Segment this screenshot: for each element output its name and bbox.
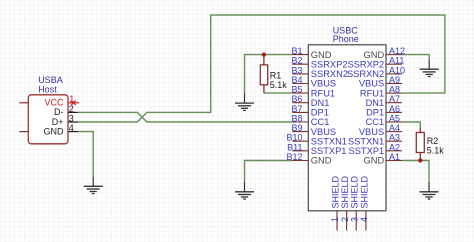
pin A4 [386,131,402,133]
svg-text:SSRXN2: SSRXN2 [347,69,384,79]
svg-text:B2: B2 [291,56,302,66]
USBA pin 2 [68,111,78,113]
junction dot on B1 net [262,53,266,57]
pin B3 [292,73,308,75]
svg-text:SSTXN1: SSTXN1 [311,136,347,146]
connector USBC box [308,45,386,211]
svg-text:3: 3 [349,217,359,222]
svg-text:4: 4 [69,123,74,133]
svg-text:GND: GND [364,50,385,60]
svg-text:CC1: CC1 [311,117,330,127]
wire D- net: USBA pin2 crossing down to B8 [78,112,292,122]
svg-text:1: 1 [69,94,74,104]
pin B7 [292,111,308,113]
pin A7 [386,102,402,104]
svg-text:D-: D- [54,107,64,117]
pin B9 [292,131,308,133]
resistor R1 [260,55,287,94]
svg-text:B12: B12 [286,152,302,162]
svg-text:A9: A9 [389,75,400,85]
ground G5 below B12 wire [235,182,254,199]
svg-text:B3: B3 [291,65,302,75]
svg-text:B5: B5 [291,85,302,95]
svg-text:A8: A8 [389,85,400,95]
svg-text:SSTXP1: SSTXP1 [349,146,385,156]
shield pin S2 [346,211,348,231]
svg-text:A6: A6 [389,104,400,114]
pin A5 [386,121,402,123]
USBA pin 3 [68,121,78,123]
shield pin S3 [355,211,357,231]
svg-text:VBUS: VBUS [311,127,336,137]
svg-text:B7: B7 [291,104,302,114]
svg-text:3: 3 [69,114,74,124]
wire A1 GND net to ground [402,161,429,183]
pin B10 [292,140,308,142]
svg-text:CC1: CC1 [366,117,385,127]
svg-text:2: 2 [340,217,350,222]
svg-text:A12: A12 [389,46,405,56]
ground G3 right of A12 [420,60,439,77]
svg-text:A11: A11 [389,56,404,66]
pin A9 [386,83,402,85]
shield pin S4 [365,211,367,231]
ground G4 below R2 [420,182,439,199]
USBA pin 4 [68,131,78,133]
pin A3 [386,140,402,142]
svg-text:Host: Host [38,85,57,95]
wire USBA pin4 GND to ground [78,132,93,177]
svg-text:VBUS: VBUS [359,79,384,89]
ground G1 below USBA [84,177,103,194]
svg-text:SSRXP2: SSRXP2 [347,59,384,69]
pin A10 [386,73,402,75]
svg-text:A7: A7 [389,94,400,104]
svg-text:B10: B10 [286,133,302,143]
svg-text:A1: A1 [389,152,400,162]
svg-text:B6: B6 [291,94,302,104]
wire R1 bottom to pin B5 [264,92,292,94]
svg-text:B4: B4 [291,75,302,85]
pin B4 [292,83,308,85]
svg-text:A5: A5 [389,114,400,124]
pin A6 [386,111,402,113]
pin B1 [292,54,308,56]
svg-text:A2: A2 [389,142,400,152]
pin B11 [292,150,308,152]
svg-text:VBUS: VBUS [311,79,336,89]
pin B8 [292,121,308,123]
svg-text:B11: B11 [287,142,302,152]
wire D+ net: USBA pin3 crossing up, around top to A8 [78,15,445,122]
pin A1 [386,160,402,162]
svg-text:SHIELD: SHIELD [340,175,350,208]
pin A8 [386,92,402,94]
svg-text:VCC: VCC [44,98,64,108]
svg-text:SHIELD: SHIELD [330,175,340,208]
svg-text:USBA: USBA [38,75,63,85]
pin B5 [292,92,308,94]
svg-text:1: 1 [330,217,340,222]
connector USBA box [28,95,68,144]
svg-text:RFU1: RFU1 [360,88,384,98]
USBA pin 1 VCC with no-ERC cross [68,101,79,105]
shield pin S1 [336,211,338,231]
wire A12 GND to ground [402,55,429,60]
svg-text:4: 4 [359,217,369,222]
svg-text:DP1: DP1 [311,108,329,118]
svg-text:SHIELD: SHIELD [350,175,360,208]
pin B6 [292,102,308,104]
svg-text:GND: GND [44,126,65,136]
resistor R2 [416,127,444,160]
svg-text:DN1: DN1 [366,98,385,108]
svg-text:GND: GND [311,50,332,60]
wire B12 GND to ground [245,161,293,183]
svg-text:SSRXN2: SSRXN2 [311,69,348,79]
pin A2 [386,150,402,152]
svg-text:RFU1: RFU1 [311,88,335,98]
svg-text:DP1: DP1 [366,108,384,118]
svg-text:SSRXP2: SSRXP2 [311,59,348,69]
svg-text:5.1k: 5.1k [270,80,288,90]
svg-text:Phone: Phone [333,34,359,44]
svg-text:SSTXN1: SSTXN1 [348,136,384,146]
svg-text:B1: B1 [291,46,302,56]
junction dot on A1 net [418,158,422,162]
USBA left shield stub pin (bottom) [19,131,28,133]
svg-text:2: 2 [69,104,74,114]
svg-text:A4: A4 [389,123,400,133]
pin B12 [292,160,308,162]
wire net VBUS-A from B1 to ground and R1 [245,55,293,94]
pin A11 [386,63,402,65]
svg-text:B9: B9 [291,123,302,133]
svg-text:VBUS: VBUS [359,127,384,137]
svg-text:SSTXP1: SSTXP1 [311,146,347,156]
ground G2 left of R1 [235,94,254,111]
svg-text:GND: GND [311,156,332,166]
svg-text:D+: D+ [52,117,64,127]
svg-text:B8: B8 [291,114,302,124]
svg-text:A10: A10 [389,65,405,75]
svg-text:5.1k: 5.1k [427,145,445,155]
svg-text:SHIELD: SHIELD [359,175,369,208]
pin B2 [292,63,308,65]
wire A5 CC1 to R2 top [402,122,420,127]
svg-text:GND: GND [364,156,385,166]
pin A12 [386,54,402,56]
svg-text:A3: A3 [389,133,400,143]
USBA left shield stub pin (top) [19,102,28,104]
svg-text:DN1: DN1 [311,98,330,108]
